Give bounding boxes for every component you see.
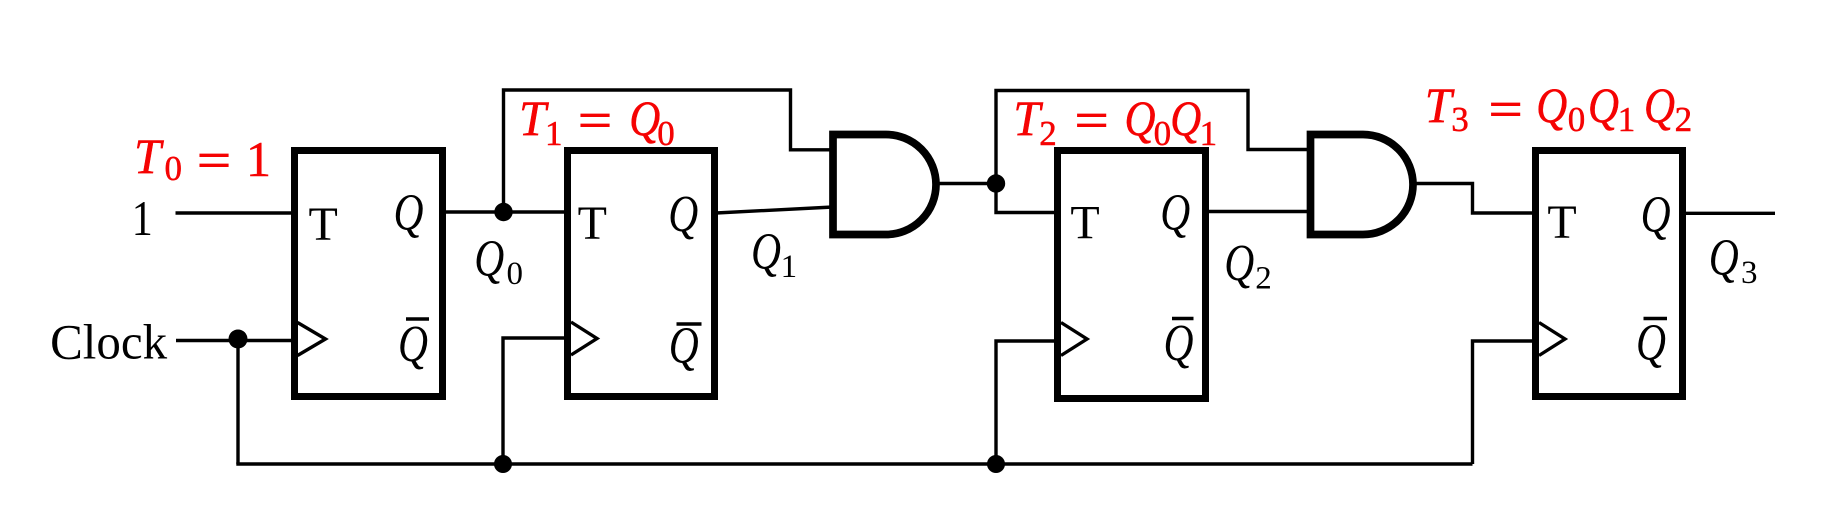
svg-text:0: 0	[1568, 100, 1586, 139]
wire: rail up to U2 clk	[503, 338, 567, 464]
wire: node Q0 up and over to G1 upper input	[504, 90, 834, 212]
svg-text:T: T	[578, 197, 607, 250]
svg-text:Q: Q	[1536, 77, 1567, 133]
svg-text:Q: Q	[629, 90, 660, 146]
svg-text:1: 1	[246, 131, 271, 187]
wire: U1.Q to U2.T	[446, 210, 567, 213]
wire: U2.Q to G1 lower input	[716, 207, 833, 213]
svg-text:1: 1	[1618, 100, 1636, 139]
flip-flop U4 (T FF box)	[1536, 151, 1683, 397]
svg-text:2: 2	[1039, 114, 1057, 153]
svg-text:Q: Q	[1709, 230, 1739, 287]
svg-text:Q: Q	[751, 224, 781, 281]
svg-text:1: 1	[1200, 114, 1218, 153]
svg-text:Q: Q	[394, 185, 424, 242]
svg-text:Q: Q	[1224, 235, 1254, 292]
wire: clock node down to bottom rail	[236, 341, 239, 465]
wire: Clock input to U1 clk	[176, 339, 292, 342]
wire: U3.Q to G2 lower input	[1206, 210, 1311, 213]
svg-text:Q: Q	[1125, 90, 1156, 146]
label T0 = 1 (red)	[134, 128, 271, 188]
wire: bottom clock rail	[236, 462, 1472, 465]
wire: input 1 to U1.T	[176, 211, 293, 214]
wire: G2 output to U4.T	[1413, 184, 1535, 214]
svg-text:Q: Q	[1588, 77, 1619, 133]
label T2 = Q0Q1 (red)	[1013, 90, 1217, 153]
junction rail to U2 clk	[494, 455, 512, 473]
svg-text:Q: Q	[669, 318, 699, 375]
svg-text:1: 1	[545, 114, 563, 153]
junction clock node	[229, 330, 248, 349]
svg-text:T: T	[1547, 196, 1576, 249]
svg-text:T: T	[1070, 197, 1099, 250]
wire: U4.Q output Q3	[1683, 212, 1775, 215]
svg-text:T: T	[309, 198, 338, 251]
wire: rail up to U3 clk	[996, 341, 1057, 464]
svg-text:2: 2	[1255, 261, 1272, 297]
svg-text:3: 3	[1451, 100, 1469, 139]
flip-flop U1 (T FF box)	[295, 151, 443, 397]
label T1 = Q0 (red)	[519, 90, 675, 153]
svg-text:0: 0	[1154, 114, 1172, 153]
label T3 = Q0Q1Q2 (red)	[1425, 77, 1692, 139]
svg-text:Q: Q	[1170, 90, 1201, 146]
svg-text:=: =	[578, 92, 612, 148]
AND gate G2	[1311, 135, 1414, 235]
svg-text:1: 1	[132, 190, 153, 246]
junction rail to U3 clk	[987, 455, 1005, 473]
AND gate G1	[833, 135, 936, 235]
wire: node down to U3.T	[996, 184, 1057, 213]
svg-text:1: 1	[781, 249, 798, 285]
svg-text:=: =	[1075, 92, 1109, 148]
wire: rail up to U4 clk	[1473, 341, 1536, 464]
svg-text:T: T	[134, 128, 164, 184]
svg-text:Q: Q	[1641, 187, 1671, 244]
wire: node up and over to G2 upper input	[996, 91, 1311, 184]
svg-text:Q: Q	[474, 231, 504, 288]
svg-text:=: =	[1489, 81, 1523, 137]
svg-text:Q: Q	[1636, 315, 1666, 372]
svg-text:Q: Q	[398, 316, 428, 373]
svg-text:Q: Q	[668, 186, 698, 243]
svg-text:Q: Q	[1164, 315, 1194, 372]
flip-flop U2 (T FF box)	[568, 151, 715, 397]
svg-text:0: 0	[165, 149, 183, 188]
svg-text:0: 0	[657, 114, 675, 153]
svg-text:3: 3	[1741, 255, 1758, 291]
junction G1 output node	[987, 174, 1005, 192]
wire: G1 output to node	[936, 182, 996, 185]
flip-flop U3 (T FF box)	[1058, 151, 1206, 399]
clock triangle U4	[1539, 323, 1565, 356]
svg-text:0: 0	[507, 256, 524, 292]
junction node Q0	[494, 203, 512, 221]
svg-text:Q: Q	[1644, 77, 1675, 133]
svg-text:=: =	[197, 132, 231, 188]
svg-text:2: 2	[1675, 100, 1693, 139]
clock triangle U1	[298, 323, 326, 356]
clock triangle U3	[1061, 323, 1087, 356]
svg-text:Q: Q	[1160, 185, 1190, 242]
clock triangle U2	[571, 322, 597, 355]
svg-text:Clock: Clock	[50, 314, 167, 370]
